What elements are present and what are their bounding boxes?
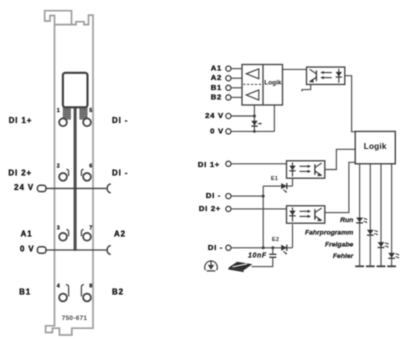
svg-text:B1: B1	[211, 83, 222, 92]
svg-text:24 V: 24 V	[14, 183, 34, 192]
svg-text:DI -: DI -	[208, 243, 223, 252]
svg-text:E1: E1	[271, 176, 278, 182]
svg-text:6: 6	[89, 164, 92, 170]
svg-text:Logik: Logik	[364, 142, 387, 151]
svg-text:A1: A1	[211, 64, 222, 73]
svg-text:Freigabe: Freigabe	[325, 241, 354, 248]
svg-text:DI 2+: DI 2+	[199, 204, 221, 213]
svg-text:2: 2	[57, 164, 60, 170]
svg-text:A1: A1	[21, 230, 33, 239]
svg-text:750-671: 750-671	[62, 315, 88, 322]
svg-text:1: 1	[57, 108, 60, 114]
svg-text:DI -: DI -	[112, 169, 128, 178]
svg-text:5: 5	[89, 108, 92, 114]
svg-text:B1: B1	[19, 287, 31, 296]
svg-text:DI -: DI -	[112, 116, 128, 125]
svg-text:Logik: Logik	[264, 79, 282, 86]
svg-text:B2: B2	[211, 92, 222, 101]
svg-text:E2: E2	[272, 237, 279, 243]
svg-text:0 V: 0 V	[20, 244, 35, 253]
svg-text:DI 1+: DI 1+	[198, 160, 220, 169]
svg-text:DI 2+: DI 2+	[8, 169, 32, 178]
svg-text:3: 3	[57, 225, 60, 231]
svg-text:Fehler: Fehler	[333, 253, 354, 260]
svg-text:Fahrprogramm: Fahrprogramm	[305, 229, 353, 236]
svg-text:10nF: 10nF	[248, 253, 267, 260]
svg-text:4: 4	[57, 284, 60, 290]
svg-text:DI 1+: DI 1+	[9, 116, 33, 125]
svg-text:24 V: 24 V	[205, 111, 224, 120]
svg-text:Run: Run	[340, 217, 353, 224]
svg-text:8: 8	[89, 284, 92, 290]
svg-text:7: 7	[89, 225, 92, 231]
svg-text:A2: A2	[114, 230, 126, 239]
svg-text:A2: A2	[211, 73, 222, 82]
svg-text:DI -: DI -	[206, 191, 221, 200]
svg-text:0 V: 0 V	[210, 127, 224, 136]
svg-text:B2: B2	[112, 287, 124, 296]
